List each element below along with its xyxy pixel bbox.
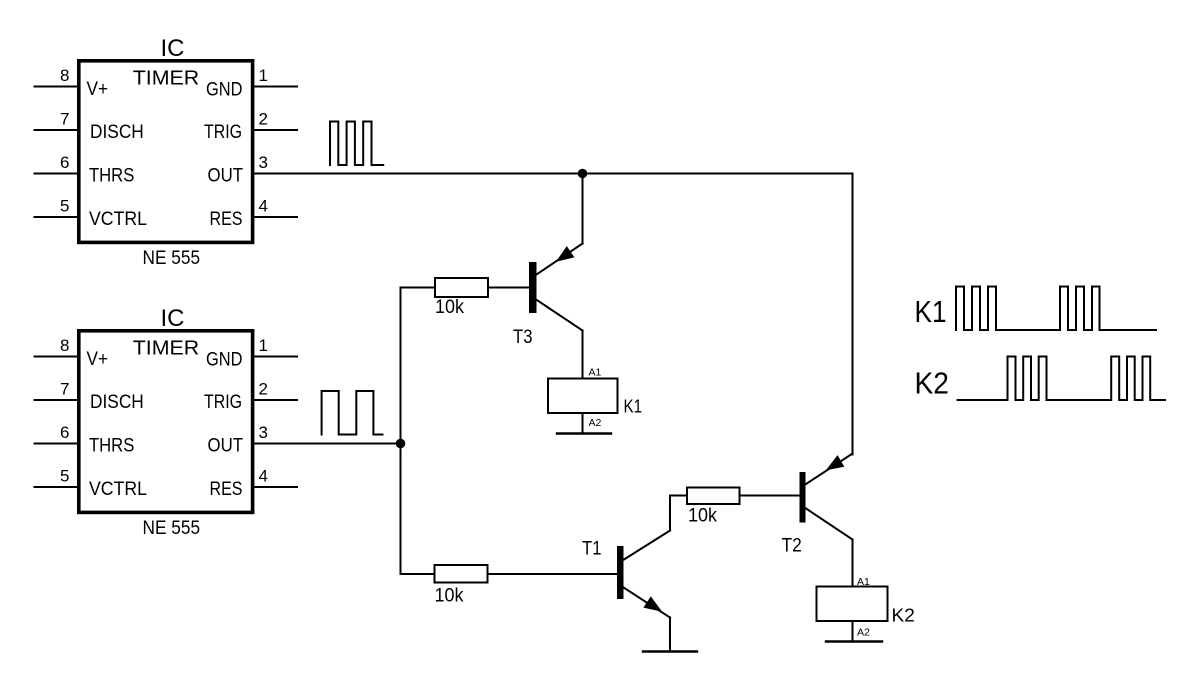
IC1 pin 8 stub [35,86,79,88]
svg-text:2: 2 [259,110,268,129]
wire: to T2 base resistor [670,495,687,497]
svg-text:THRS: THRS [89,166,134,187]
T2 emitter diagonal [806,454,853,485]
transistor T1 base bar [617,546,624,599]
svg-text:K2: K2 [915,366,950,401]
svg-text:7: 7 [60,110,69,129]
T2 emitter arrow [827,456,844,470]
svg-text:DISCH: DISCH [90,122,144,143]
svg-text:1: 1 [259,66,268,85]
ground (K2) [826,640,882,642]
svg-text:RES: RES [210,479,243,500]
svg-text:A2: A2 [857,627,870,639]
svg-text:TRIG: TRIG [204,392,242,413]
wire: to T3 base resistor [401,287,436,289]
IC1 texts [60,35,268,269]
svg-text:A2: A2 [589,417,602,429]
svg-text:TIMER: TIMER [133,338,200,360]
svg-text:7: 7 [60,380,69,399]
IC2 pin 5 stub [35,486,79,488]
wire: relay K2 to ground [852,621,854,642]
IC1 pin 7 stub [35,129,79,131]
IC2 pin 7 stub [35,399,79,401]
svg-text:5: 5 [60,467,69,486]
svg-text:6: 6 [60,153,69,172]
IC2 pin 6 stub [35,443,79,445]
svg-text:NE 555: NE 555 [143,248,201,269]
relay K1 coil [548,379,618,414]
svg-text:5: 5 [60,197,69,216]
resistor 10k (T2 base) [687,488,740,505]
IC2 pin 8 stub [35,356,79,358]
node A junction dot [578,169,588,179]
svg-text:10k: 10k [435,586,464,607]
wire: T1 emitter down [669,618,671,652]
svg-text:K1: K1 [915,294,947,329]
waveform at IC2 OUT [322,391,383,435]
T3 emitter diagonal [535,244,583,276]
relay K2 coil [817,587,888,622]
svg-text:THRS: THRS [89,436,134,457]
svg-text:OUT: OUT [208,436,244,457]
IC1 pin 4 stub [253,216,298,218]
wire: to T1 base resistor [401,573,435,575]
svg-text:6: 6 [60,423,69,442]
waveform at IC1 OUT [330,122,383,166]
wire: IC1 OUT pin3 across the top [253,173,853,175]
transistor T3 base bar [529,262,537,313]
waveform K1 [956,287,1156,331]
svg-text:NE 555: NE 555 [143,518,201,539]
svg-text:T3: T3 [513,326,533,348]
svg-text:V+: V+ [87,79,109,100]
resistor 10k (T3 base) [435,278,488,297]
svg-text:GND: GND [206,350,243,371]
T1 emitter diagonal [624,588,671,618]
IC U1 (NE 555 timer, top) [35,61,298,243]
svg-text:IC: IC [161,305,185,332]
IC2 body [79,331,253,513]
IC2 pin 1 stub [253,356,298,358]
IC1 pin 6 stub [35,173,79,175]
svg-text:8: 8 [60,336,69,355]
IC2 pin 4 stub [253,486,298,488]
IC U2 (NE 555 timer, bottom) [35,331,298,513]
svg-text:DISCH: DISCH [90,392,144,413]
resistor 10k (T1 base) [435,565,488,583]
svg-text:T1: T1 [582,538,602,560]
svg-text:RES: RES [210,209,243,230]
IC2 pin 2 stub [253,399,298,401]
wire: vertical drop to T2 emitter [852,174,854,455]
wire: relay K1 to ground [582,413,584,434]
svg-text:3: 3 [259,423,268,442]
transistor T2 base bar [800,472,806,523]
wire: node B up leg to T3 base resistor [400,288,402,444]
wire: resistor to T2 base [740,495,800,497]
wire: T1 collector up [669,496,671,531]
wire: resistor to T1 base [488,573,618,575]
svg-text:TRIG: TRIG [204,122,242,143]
wire: node A down to T3 emitter [582,174,584,244]
svg-text:A1: A1 [857,576,870,588]
svg-text:K1: K1 [624,397,643,417]
svg-text:10k: 10k [688,506,717,527]
svg-text:2: 2 [259,380,268,399]
T1 emitter arrow [644,597,661,611]
svg-text:TIMER: TIMER [133,68,200,90]
T1 collector diagonal [624,531,670,560]
svg-text:4: 4 [259,197,268,216]
svg-text:8: 8 [60,66,69,85]
ground (T1) [643,650,697,652]
T3 emitter arrow [557,247,574,261]
wire: resistor to T3 base [488,287,529,289]
wire: T3 collector to relay K1 [582,331,584,379]
svg-text:1: 1 [259,336,268,355]
svg-text:IC: IC [161,35,185,62]
wire: node B down leg to T1 base resistor [400,444,402,575]
svg-text:GND: GND [206,80,243,101]
node B junction dot [396,439,406,449]
IC1 pin 5 stub [35,216,79,218]
wire: T2 collector to relay K2 [852,540,854,587]
T2 collector diagonal [806,509,853,540]
svg-text:3: 3 [259,153,268,172]
svg-text:K2: K2 [892,606,915,626]
IC1 pin 2 stub [253,129,298,131]
svg-text:VCTRL: VCTRL [89,209,147,230]
IC1 body [79,61,253,243]
svg-text:4: 4 [259,467,268,486]
svg-text:A1: A1 [589,367,602,379]
ground (K1) [557,432,611,434]
IC1 pin 1 stub [253,86,298,88]
svg-text:10k: 10k [435,297,464,318]
svg-text:T2: T2 [782,535,802,557]
wire: IC2 OUT pin3 to node B [253,443,401,445]
svg-text:V+: V+ [87,349,109,370]
waveform K2 [958,357,1166,401]
svg-text:OUT: OUT [208,166,244,187]
svg-text:VCTRL: VCTRL [89,479,147,500]
T3 collector diagonal [536,300,583,331]
IC2 texts [60,305,268,539]
